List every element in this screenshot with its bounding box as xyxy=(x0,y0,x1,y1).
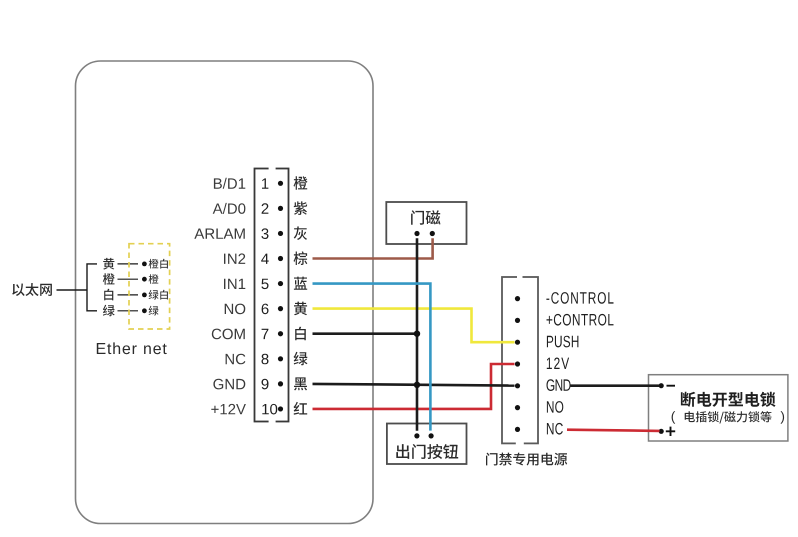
junction node GND riser xyxy=(414,382,420,388)
ethernet wire 橙 to 橙 xyxy=(103,273,159,285)
pin 5: IN1 / 蓝 xyxy=(224,277,307,290)
lock terminal minus xyxy=(659,383,675,388)
door sensor terminal right xyxy=(430,231,435,236)
pin 8: NC / 绿 xyxy=(226,352,308,366)
ethernet bracket xyxy=(87,264,97,311)
label Ether net xyxy=(97,342,167,354)
wire black GND to lock minus xyxy=(571,384,660,387)
wire black GND bus to power supply xyxy=(313,384,515,386)
ethernet dashed connector box xyxy=(129,244,170,329)
power terminal NO xyxy=(515,401,563,413)
exit button terminal left xyxy=(414,433,419,438)
pin 7: COM / 白 xyxy=(212,327,306,341)
pin 10: +12V / 红 xyxy=(211,402,307,415)
wire brown IN2 to door sensor xyxy=(313,238,433,258)
power terminal +CONTROL xyxy=(515,314,614,326)
pin 2: A/D0 / 紫 xyxy=(213,201,308,215)
electric lock box 断电开型电锁 xyxy=(649,375,788,441)
pin 6: NO / 黄 xyxy=(225,302,307,316)
lock terminal plus xyxy=(659,427,676,436)
power terminal PUSH xyxy=(515,336,579,348)
pin 3: ARLAM / 灰 xyxy=(194,226,307,240)
power terminal -CONTROL xyxy=(515,292,614,304)
wire black COM branch xyxy=(313,332,418,335)
pin 4: IN2 / 棕 xyxy=(224,251,307,265)
power supply terminal strip body xyxy=(502,275,538,446)
ethernet wire 白 to 绿白 xyxy=(104,289,168,301)
label 门禁专用电源 (access-control power supply) xyxy=(486,453,567,466)
wire yellow NO to PUSH xyxy=(313,309,515,343)
power terminal 12V xyxy=(515,358,569,370)
pin 9: GND / 黑 xyxy=(213,377,307,390)
pin 1: B/D1 / 橙 xyxy=(214,176,308,190)
door sensor box 门磁 xyxy=(386,202,466,244)
label 以太网 (Ethernet) xyxy=(12,283,52,296)
junction node COM riser xyxy=(414,331,420,337)
access controller outline xyxy=(76,61,374,524)
exit button terminal right xyxy=(429,433,434,438)
wire black door sensor to exit button riser xyxy=(416,238,419,430)
wire red +12V to 12V xyxy=(313,364,515,409)
power terminal NC xyxy=(515,423,563,435)
door sensor terminal left xyxy=(414,231,419,236)
wire ethernet lead xyxy=(57,289,88,291)
ethernet wire 绿 to 绿 xyxy=(103,305,159,317)
power terminal GND xyxy=(515,379,571,391)
wire blue IN1 to exit button xyxy=(313,284,431,431)
ethernet wire 黄 to 橙白 xyxy=(103,258,168,270)
exit button box 出门按钮 xyxy=(387,424,467,465)
terminal block J1 body xyxy=(255,166,289,424)
wire red NC to lock plus xyxy=(567,430,660,431)
